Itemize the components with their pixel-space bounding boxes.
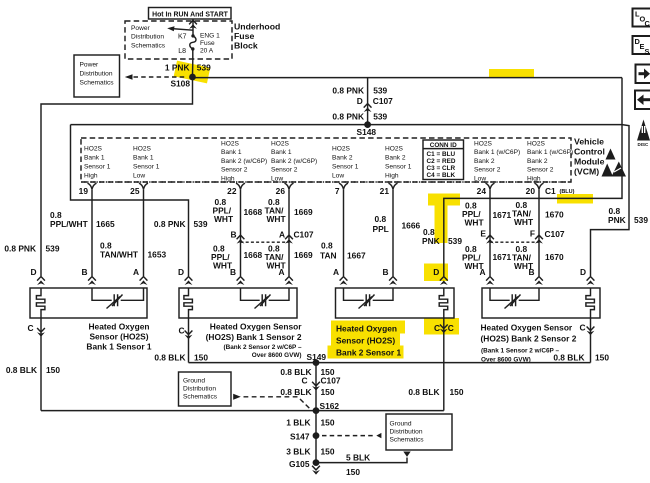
svg-text:1669: 1669 [294,250,313,260]
wire S108 right to top right corner [195,77,622,79]
svg-text:539: 539 [373,85,387,95]
svg-text:Heated Oxygen: Heated Oxygen [89,321,150,331]
highlight on sensor3 C C label [424,318,459,335]
svg-text:0.8 PNK: 0.8 PNK [154,219,186,229]
heated oxygen sensor HO2S bank2 sensor2 box [482,288,600,318]
svg-text:1665: 1665 [96,219,115,229]
svg-text:G105: G105 [289,459,310,469]
svg-text:150: 150 [595,352,609,362]
wire from hot box to fuse [192,19,194,36]
svg-text:Schematics: Schematics [80,79,115,86]
wire VCM right edge to sensor3 pin D [444,78,622,276]
svg-text:5 BLK: 5 BLK [346,452,370,462]
svg-text:PNK: PNK [608,215,626,225]
svg-text:0.8: 0.8 [375,214,387,224]
svg-text:1667: 1667 [347,251,366,261]
svg-text:150: 150 [321,387,335,397]
svg-text:0.8 BLK: 0.8 BLK [553,352,584,362]
svg-text:539: 539 [448,236,462,246]
svg-text:S: S [645,47,650,56]
svg-text:1653: 1653 [148,250,167,260]
wire S108 down and left to sensor1 feed [41,79,193,276]
svg-text:TAN/WHT: TAN/WHT [100,249,139,259]
svg-text:Sensor 1: Sensor 1 [332,164,359,171]
ground distribution schematics box left [179,372,232,406]
underhood fuse block dashed box [125,21,232,59]
highlight sensor3 caption line3 [328,346,404,359]
svg-text:A: A [333,267,339,277]
svg-text:1666: 1666 [402,221,421,231]
svg-text:7: 7 [335,186,340,196]
sensor2 heater element [184,288,193,318]
svg-text:22: 22 [227,186,237,196]
svg-text:Distribution: Distribution [183,385,216,392]
svg-text:High: High [84,173,98,180]
disconnect warning triangle [637,120,650,141]
fuse ENG1 symbol [191,34,194,37]
svg-text:539: 539 [194,219,208,229]
sensor1 C wire to ground rail [40,318,42,411]
svg-text:C: C [434,323,440,333]
svg-text:Fuse: Fuse [234,31,254,41]
svg-text:Bank 2: Bank 2 [385,155,406,162]
splice S148 [364,121,371,128]
highlight corner of sensor3 D wire [428,194,460,206]
svg-text:Schematics: Schematics [183,393,218,400]
svg-text:(HO2S) Bank 2 Sensor 2: (HO2S) Bank 2 Sensor 2 [481,333,577,343]
svg-text:0.8 BLK: 0.8 BLK [280,387,311,397]
svg-text:C107: C107 [545,229,565,239]
svg-text:Bank 2 Sensor 1: Bank 2 Sensor 1 [336,347,402,357]
svg-text:Bank 1: Bank 1 [133,155,154,162]
svg-text:1 PNK: 1 PNK [165,62,190,72]
svg-text:PPL: PPL [373,224,389,234]
svg-text:25: 25 [130,186,140,196]
svg-text:24: 24 [477,186,487,196]
svg-text:C: C [27,323,33,333]
svg-text:20: 20 [526,186,536,196]
svg-text:Low: Low [332,173,344,180]
CONN ID box [423,140,464,180]
svg-text:0.8 PNK: 0.8 PNK [332,85,364,95]
svg-text:21: 21 [380,186,390,196]
svg-text:Heated Oxygen: Heated Oxygen [336,323,397,333]
svg-text:CONN ID: CONN ID [430,142,457,149]
VCM dashed box [81,138,571,182]
svg-text:D: D [433,267,439,277]
svg-text:D: D [580,267,586,277]
wire pin26 to sensor2 A [288,189,290,276]
right arrow button [636,65,650,84]
svg-text:Module: Module [574,156,605,166]
svg-text:1670: 1670 [545,209,564,219]
power distribution schematics box [74,55,120,97]
svg-text:High: High [527,175,541,182]
svg-text:C1: C1 [545,186,556,196]
svg-text:Bank 1 Sensor 1: Bank 1 Sensor 1 [86,341,152,351]
heated oxygen sensor HO2S bank1 sensor1 box [30,288,147,318]
svg-text:DISC: DISC [638,142,650,147]
svg-text:B: B [230,267,236,277]
svg-text:Block: Block [234,41,258,51]
svg-text:HO2S: HO2S [271,141,290,148]
svg-text:150: 150 [321,418,335,428]
svg-text:0.8 PNK: 0.8 PNK [332,111,364,121]
splice S147 [313,432,320,439]
svg-text:L8: L8 [178,48,186,55]
svg-text:150: 150 [321,447,335,457]
svg-text:WHT: WHT [514,217,534,227]
svg-text:C107: C107 [294,230,314,240]
svg-text:0.8 PNK: 0.8 PNK [4,243,36,253]
dashed arrow from S108 to power distribution box [134,76,187,78]
svg-text:S149: S149 [307,352,327,362]
svg-text:Sensor 2: Sensor 2 [221,167,248,174]
svg-text:(VCM): (VCM) [574,166,599,176]
S148 bus line / VCM top edge [71,124,623,126]
svg-text:0.8 BLK: 0.8 BLK [408,387,439,397]
svg-text:B: B [81,267,87,277]
svg-text:Sensor 2: Sensor 2 [271,167,298,174]
sensor4 C wire to S149 rail [590,318,592,363]
ground distribution schematics box right [386,414,452,450]
wire pin7 to sensor3 A [343,189,345,276]
svg-text:19: 19 [79,186,89,196]
svg-text:1671: 1671 [493,210,512,220]
svg-text:1668: 1668 [244,207,263,217]
sensor3 oxygen sense element [344,288,394,300]
wire VCM left edge to sensor2 pin D [71,125,189,276]
connector chevron at fuse block boundary [189,20,197,24]
svg-text:S108: S108 [170,79,190,89]
wire 5 BLK to ground distribution box [316,458,407,463]
svg-text:0.8 BLK: 0.8 BLK [6,365,37,375]
sensor3 C wire to S162 rail [443,318,445,411]
svg-text:PPL/WHT: PPL/WHT [50,219,89,229]
svg-text:Bank 2: Bank 2 [332,155,353,162]
svg-text:(BLU): (BLU) [560,189,575,195]
sensor2 C wire to S149 rail [188,318,190,363]
svg-text:(HO2S) Bank 1 Sensor 2: (HO2S) Bank 1 Sensor 2 [206,332,302,342]
LOC button [633,9,650,27]
svg-text:A: A [279,230,285,240]
svg-text:C: C [645,19,650,28]
svg-text:D: D [178,267,184,277]
svg-text:C107: C107 [373,96,393,106]
highlight on sensor3 D wire vertical [435,196,448,243]
VCM dotted divider [81,181,571,183]
highlight sensor3 caption line2 [331,333,400,346]
svg-text:Sensor 1: Sensor 1 [385,164,412,171]
wire pin24 to sensor4 A [489,189,491,276]
svg-text:S148: S148 [357,127,377,137]
dashed arrow ground distribution box to S162 [233,394,241,400]
sensor2 oxygen sense element [241,288,290,300]
svg-text:C1 = BLU: C1 = BLU [427,151,456,158]
svg-text:150: 150 [46,365,60,375]
svg-text:1669: 1669 [294,207,313,217]
svg-text:1 BLK: 1 BLK [286,418,310,428]
svg-text:Ground: Ground [183,377,205,384]
svg-text:539: 539 [46,243,60,253]
svg-text:1670: 1670 [545,252,564,262]
ground G105 [313,459,320,466]
svg-text:150: 150 [194,352,208,362]
svg-text:Heated Oxygen Sensor: Heated Oxygen Sensor [210,321,302,331]
svg-text:539: 539 [373,111,387,121]
svg-text:HO2S: HO2S [221,141,240,148]
svg-text:(Bank 2 Sensor 2 w/C6P –: (Bank 2 Sensor 2 w/C6P – [223,344,301,351]
svg-text:B: B [230,230,236,240]
svg-text:C3 = CLR: C3 = CLR [427,165,456,172]
svg-text:Control: Control [574,146,605,156]
splice S108 [189,74,196,81]
svg-text:E: E [480,228,486,238]
svg-text:C107: C107 [321,376,341,386]
highlight sensor3 caption line1 [331,321,405,334]
heated oxygen sensor HO2S bank1 sensor2 box [179,288,297,318]
svg-text:Bank 2: Bank 2 [527,158,548,165]
svg-text:Sensor 1: Sensor 1 [84,164,111,171]
svg-text:150: 150 [346,467,360,477]
svg-text:D: D [357,96,363,106]
highlight near C1 BLU [557,194,593,204]
svg-text:A: A [479,267,485,277]
svg-text:PNK: PNK [422,236,440,246]
svg-text:WHT: WHT [267,214,287,224]
svg-text:20 A: 20 A [200,47,214,54]
sensor1 oxygen sense element [92,288,144,300]
svg-text:F: F [530,228,535,238]
svg-text:Power: Power [131,25,150,32]
svg-text:Bank 1: Bank 1 [84,155,105,162]
svg-text:C: C [178,325,184,335]
svg-text:B: B [382,267,388,277]
svg-text:C: C [579,323,585,333]
svg-text:WHT: WHT [214,214,234,224]
svg-text:Schematics: Schematics [131,42,166,49]
svg-text:ENG 1: ENG 1 [200,32,220,39]
C107 dashed boundary sensor2 [241,241,290,243]
svg-text:C2 = RED: C2 = RED [427,158,456,165]
sensor3 heater element [439,288,448,318]
svg-text:Sensor 1: Sensor 1 [133,164,160,171]
svg-text:Distribution: Distribution [131,34,164,41]
svg-text:HO2S: HO2S [385,146,404,153]
wire drop from top feed to S148 [367,78,369,122]
splice S162 [313,407,320,414]
svg-text:K7: K7 [178,34,187,41]
svg-text:Over 8600 GVW): Over 8600 GVW) [252,352,302,359]
svg-text:539: 539 [197,62,211,72]
dashed arrow S147 to ground distribution box [322,435,374,437]
svg-text:HO2S: HO2S [133,146,152,153]
svg-text:HO2S: HO2S [332,146,351,153]
svg-text:D: D [30,267,36,277]
svg-text:High: High [385,173,399,180]
highlight over splice S108 [174,61,211,84]
svg-text:C: C [301,376,307,386]
svg-text:Distribution: Distribution [80,70,113,77]
svg-text:Vehicle: Vehicle [574,136,604,146]
wire from fuse to S108 [192,49,194,75]
svg-text:3 BLK: 3 BLK [286,447,310,457]
wire pin21 to sensor3 B [392,189,394,276]
svg-text:Schematics: Schematics [390,436,425,443]
svg-text:Ground: Ground [390,420,412,427]
svg-text:Sensor 2: Sensor 2 [527,167,554,174]
hot in run and start box [149,8,232,20]
ESD triangle pair [602,164,614,177]
svg-text:A: A [278,267,284,277]
svg-text:High: High [221,175,235,182]
svg-text:1671: 1671 [493,252,512,262]
C107 dashed boundary sensor4 [490,241,539,243]
wire pin19 to sensor1 B [91,189,93,276]
sensor1 heater element [36,288,45,318]
wire pin25 to sensor1 A [143,189,145,276]
svg-text:Underhood: Underhood [234,22,280,32]
svg-text:Fuse: Fuse [200,40,215,47]
highlight on sensor3 pin D label [424,264,448,282]
svg-text:HO2S: HO2S [84,146,103,153]
svg-text:Sensor 2: Sensor 2 [474,167,501,174]
svg-text:HO2S: HO2S [474,141,493,148]
svg-text:150: 150 [450,387,464,397]
svg-text:S162: S162 [320,401,340,411]
wire S162 to G105 [315,411,317,463]
svg-text:1668: 1668 [244,250,263,260]
svg-text:Power: Power [80,61,99,68]
svg-text:Bank 2 (w/C6P): Bank 2 (w/C6P) [221,158,267,165]
svg-text:0.8: 0.8 [321,240,333,250]
svg-text:Bank 1: Bank 1 [221,149,242,156]
wire right feed to sensor4 pin D [591,125,630,276]
ESD triangle small [606,149,616,160]
svg-text:26: 26 [276,186,286,196]
sensor4 heater element [586,288,595,318]
sensor4 oxygen sense element [490,288,539,300]
svg-text:539: 539 [634,215,648,225]
svg-text:Bank 1: Bank 1 [271,149,292,156]
svg-text:Bank 2: Bank 2 [474,158,495,165]
connector chevron C107 main feed [364,104,372,108]
svg-text:Sensor (HO2S): Sensor (HO2S) [89,331,148,341]
S162 rail [41,410,444,412]
svg-text:Hot In RUN And START: Hot In RUN And START [152,11,229,18]
svg-text:0.8 BLK: 0.8 BLK [154,352,185,362]
svg-text:C: C [448,323,454,333]
svg-text:Low: Low [271,175,283,182]
heated oxygen sensor HO2S bank2 sensor1 box [336,288,455,318]
svg-text:(Bank 1 Sensor 2 w/C6P –: (Bank 1 Sensor 2 w/C6P – [481,347,559,354]
svg-text:HO2S: HO2S [527,141,546,148]
wire pin22 to sensor2 B [240,189,242,276]
svg-text:Bank 1 (w/C6P): Bank 1 (w/C6P) [474,149,520,156]
svg-text:Low: Low [474,175,486,182]
svg-text:WHT: WHT [465,217,485,227]
svg-text:C4 = BLK: C4 = BLK [427,172,456,179]
arrow from fuse to power distribution note [172,29,193,31]
wire pin20 to sensor4 B [538,189,540,276]
svg-text:A: A [133,267,139,277]
svg-text:Heated Oxygen Sensor: Heated Oxygen Sensor [481,322,573,332]
svg-text:Low: Low [133,173,145,180]
svg-text:Bank 2 (w/C6P): Bank 2 (w/C6P) [271,158,317,165]
left arrow button [635,91,650,110]
S149 rail [189,362,591,364]
svg-text:Bank 1 (w/C6P): Bank 1 (w/C6P) [527,149,573,156]
svg-text:Distribution: Distribution [390,428,423,435]
highlight on PNK 539 wire top right [489,69,534,78]
DES button [633,36,650,54]
svg-text:Sensor (HO2S): Sensor (HO2S) [336,335,395,345]
wire S149 to S162 [315,363,317,411]
svg-text:TAN: TAN [320,251,337,261]
svg-text:B: B [528,267,534,277]
splice S149 [313,359,320,366]
svg-text:S147: S147 [290,432,310,442]
